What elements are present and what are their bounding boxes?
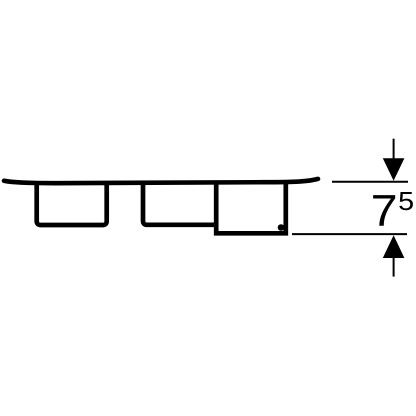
svg-text:7: 7 — [371, 187, 398, 236]
svg-text:5: 5 — [398, 188, 414, 216]
